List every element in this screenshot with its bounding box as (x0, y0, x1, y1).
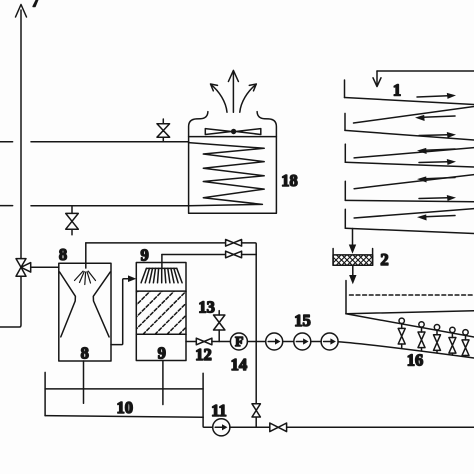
drain valve on line2 bowtie (66, 213, 79, 229)
flow arrow right R4 (419, 197, 448, 200)
flow arrow right R2 (419, 134, 448, 137)
flow arrow right R1 (417, 96, 448, 97)
cooler 18 right shoulder (257, 112, 276, 137)
svg-text:12: 12 (195, 345, 212, 364)
venturi profile right (93, 272, 110, 337)
svg-text:9: 9 (140, 246, 148, 265)
valve on riser (252, 404, 260, 417)
valve on bottom line (270, 423, 287, 432)
svg-text:16: 16 (407, 351, 424, 370)
cascade wall W1 (344, 80, 346, 98)
three-way valve on line 7 (16, 259, 31, 277)
flow arrow left L1 (423, 116, 455, 117)
valve on line B (226, 251, 242, 258)
wire spray line B to absorber 9 (162, 254, 226, 256)
wire bottom discharge line (230, 426, 474, 428)
spray valve 16e (462, 330, 469, 357)
cascade shelf A4 (345, 200, 474, 201)
valve 13 stem (218, 311, 220, 342)
vent valve on line1 (162, 119, 164, 142)
svg-text:8: 8 (59, 245, 67, 264)
cascade return B3 (354, 175, 474, 189)
wire main liquid line from absorber 9 (186, 341, 196, 343)
pump 11 (213, 419, 230, 436)
svg-text:1: 1 (393, 81, 401, 100)
spray valve 16a (398, 318, 405, 348)
absorber 9 spray header (146, 267, 176, 269)
arrowhead into absorber 9 (128, 275, 136, 282)
cascade shelf A3 (345, 162, 474, 167)
cascade return B2 (354, 148, 474, 158)
valve 12 (196, 338, 212, 345)
wire pump 15b to 15c (311, 341, 321, 343)
exhaust arrow right curved (240, 84, 256, 112)
svg-text:14: 14 (231, 355, 248, 374)
absorber 9 spray section bottom line (136, 290, 186, 292)
venturi profile left (60, 272, 76, 337)
spray valve 16b (418, 322, 425, 351)
svg-text:9: 9 (158, 344, 166, 363)
svg-text:10: 10 (117, 398, 134, 417)
wire pump 15a to 15b (283, 341, 294, 343)
cascade return B4 (354, 209, 474, 218)
arrowhead into settling tank (349, 275, 356, 284)
wire meter 14 to pump 15a (247, 341, 265, 343)
absorber 9 packing bottom line (136, 333, 186, 335)
collection tank 10 left wall (44, 372, 46, 415)
pump 15a (266, 333, 283, 350)
cascade wall W2 (344, 113, 346, 130)
cascade shelf A2 (345, 130, 474, 140)
pump 15c (321, 333, 338, 350)
flow meter 14 (230, 333, 247, 350)
fan blade left (205, 129, 231, 135)
wire riser down to bottom line (255, 255, 257, 428)
scrubber 8 spray pipe (85, 243, 87, 268)
cascade return B1 (354, 107, 474, 124)
scrubber 8 spray fan (75, 271, 96, 284)
spray manifold lower line (338, 342, 474, 358)
wire spray line A to scrubber 8 (86, 242, 226, 244)
collection tank 10 bottom (45, 416, 203, 418)
absorber 9 packing hatch (95, 291, 222, 334)
wire line A to riser (242, 243, 257, 255)
cascade wall W4 (344, 181, 346, 200)
wire cascade feed drop (376, 71, 378, 86)
settling tank bottom (346, 311, 474, 314)
wire scrubber 8 to absorber 9 elbow (111, 279, 130, 345)
wire tray 2 outlet (352, 265, 354, 276)
exhaust arrow left curved (211, 84, 227, 112)
cooler unit 18 box (189, 137, 277, 214)
spray manifold upper line (346, 314, 474, 337)
settling tank left wall (345, 281, 347, 314)
cascade wall W3 (344, 144, 346, 162)
collection tank 10 right wall (202, 373, 204, 417)
drain valve on line2 stem (71, 206, 73, 235)
fan hub dot (231, 129, 236, 134)
spray valve 16d (449, 327, 456, 355)
valve on line A (226, 240, 242, 247)
absorber 9 spray pipe (161, 255, 163, 269)
svg-text:15: 15 (294, 311, 311, 330)
cascade shelf A1 (345, 98, 474, 105)
cooler 18 left shoulder (189, 112, 208, 137)
flow arrow right R3 (419, 161, 448, 164)
svg-text:8: 8 (81, 344, 89, 363)
flow arrow left L3 (425, 178, 455, 179)
valve 13 bowtie (214, 315, 225, 330)
wire scrubber 8 drain (83, 361, 85, 403)
pump 15b (294, 333, 311, 350)
svg-text:7: 7 (31, 0, 39, 11)
wire pipe line2 left segment (0, 205, 13, 207)
collection tank 10 liquid level (45, 388, 203, 390)
wire cascade feed line (377, 70, 474, 72)
svg-text:11: 11 (211, 401, 227, 420)
vent valve on line1 bowtie (157, 124, 170, 138)
wire exhaust line 7 riser (20, 10, 22, 259)
arrowhead cascade feed (373, 78, 381, 87)
cascade shelf A5 (345, 228, 474, 233)
exhaust arrow center (232, 71, 234, 112)
absorber 9 spray fan (141, 268, 182, 282)
arrowhead into tray 2 (349, 245, 356, 254)
wire absorber 9 drain (162, 361, 164, 405)
settling tank liquid level dashed (350, 294, 474, 296)
wire branch to scrubber 8 (31, 266, 59, 268)
fan blade right (236, 129, 261, 135)
wire pipe line2 to unit 18 (31, 205, 189, 207)
tray 2 left wall (332, 249, 334, 266)
flow arrow left L4 (425, 216, 455, 217)
wire pipe line1 left segment (0, 141, 13, 143)
arrowhead line 7 top (16, 5, 27, 18)
wire drop cascade to tray 2 (352, 229, 354, 247)
svg-text:13: 13 (198, 298, 215, 317)
wire pipe line1 to unit 18 (31, 141, 189, 143)
venturi scrubber 8 body (59, 263, 111, 361)
absorber column 9 body (136, 263, 186, 361)
wire valve 12 to meter 14 (212, 341, 231, 343)
svg-text:F: F (235, 334, 243, 349)
svg-text:18: 18 (281, 171, 298, 190)
cooling coil inside 18 (189, 143, 265, 206)
wire line B to riser (242, 254, 257, 256)
cascade wall W5 (344, 209, 346, 228)
flow arrow left L2 (425, 149, 455, 150)
tray 2 right wall (372, 249, 374, 266)
spray valve 16c (434, 325, 441, 353)
tray 2 hatched band (333, 255, 373, 265)
svg-text:2: 2 (380, 250, 388, 269)
wire exhaust line 7 inlet elbow (0, 277, 21, 327)
wire tank outlet to pump 11 (203, 417, 213, 427)
